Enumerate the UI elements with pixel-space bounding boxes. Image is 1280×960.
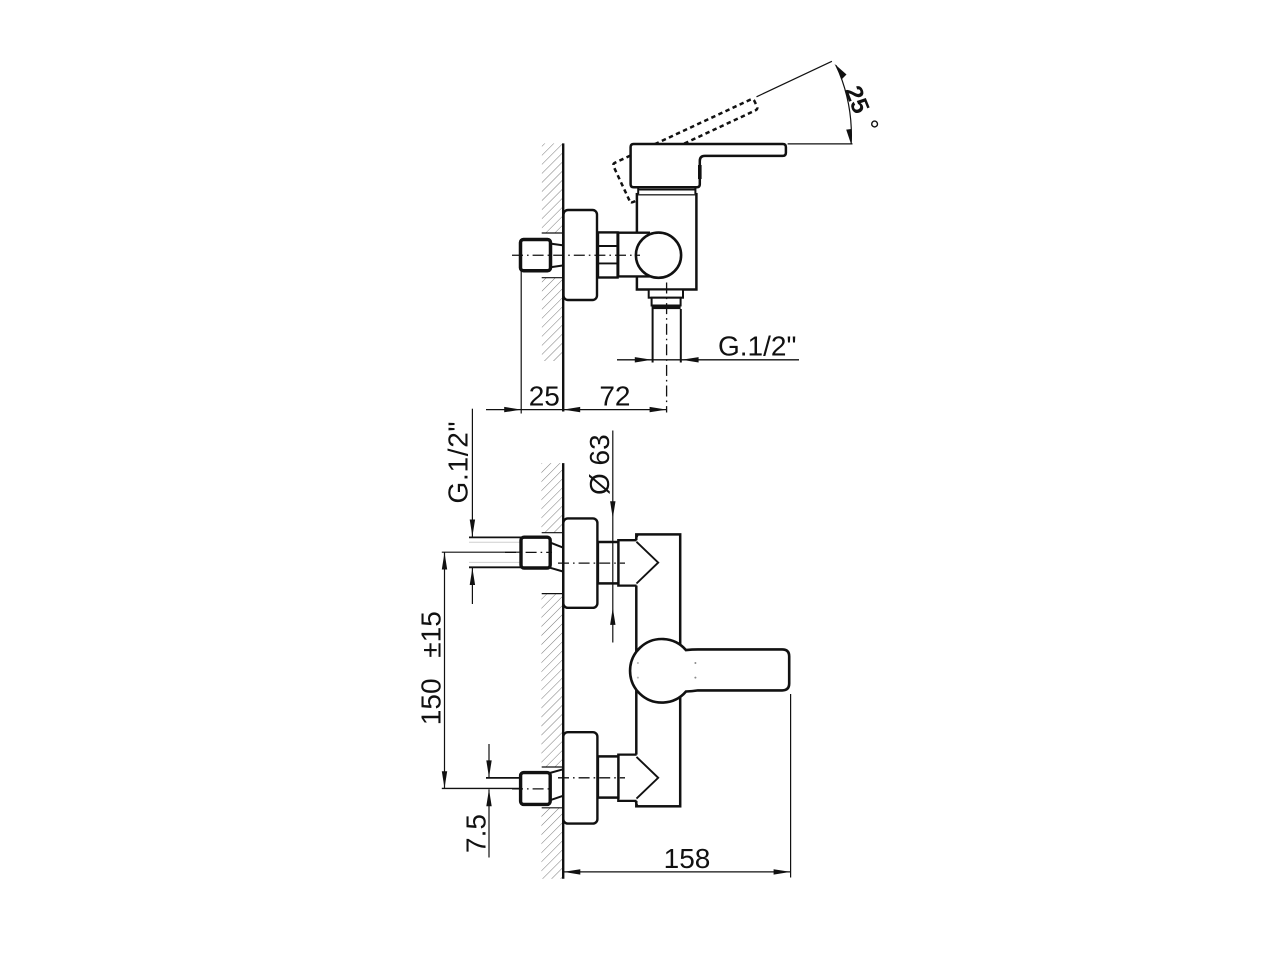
svg-text:158: 158: [664, 843, 711, 874]
solid handle (horizontal): [631, 144, 786, 187]
extension line upper center: [442, 551, 521, 553]
svg-text:150: 150: [416, 678, 447, 725]
svg-text:25: 25: [529, 380, 560, 411]
centerline upper valve: [558, 562, 625, 564]
dimension 7.5: [488, 744, 490, 777]
handle cap edge seam: [698, 165, 702, 179]
outlet step 2: [652, 298, 681, 306]
outlet thread relief band: [652, 305, 681, 309]
centerline upper inlet nut: [505, 551, 552, 553]
svg-text:7.5: 7.5: [461, 814, 492, 853]
arrow 25 left: [504, 407, 521, 412]
wall hole edge bottom: [542, 277, 563, 279]
mid nut between flange and valve: [598, 232, 618, 277]
ball joint circle: [636, 233, 681, 278]
hex coupling nut left of wall: [521, 240, 551, 271]
wall face line: [562, 463, 564, 879]
dashed raised handle (25 deg): [612, 98, 771, 203]
upper flange escutcheon: [563, 518, 597, 607]
arc arrow bottom: [846, 129, 851, 144]
dimension G.1/2 upper inlet: [471, 409, 473, 537]
wall hatching part 3: [541, 808, 562, 879]
lower flange escutcheon: [563, 732, 597, 823]
body vertical bar: [636, 534, 680, 806]
arrow G right: [682, 357, 699, 362]
wall face line: [562, 143, 564, 411]
wall hole edge top: [542, 232, 563, 234]
dimension line G.1/2 outlet: [617, 359, 799, 361]
dimension 150 line: [444, 552, 446, 788]
wall hatching part 1: [541, 463, 562, 533]
lower union nut right of flange: [598, 756, 619, 797]
upper valve chamfers: [635, 535, 638, 541]
outlet step 1: [649, 290, 683, 298]
flange escutcheon on wall: [564, 210, 598, 300]
dimension dia 63: [612, 431, 614, 643]
neck under handle: [638, 187, 695, 194]
arrow 72 left: [563, 407, 580, 412]
upper hex nut: [521, 537, 550, 568]
lower supply tube top: [486, 777, 521, 779]
upper valve box: [618, 540, 638, 585]
centerline lower valve: [558, 777, 625, 779]
wall hole edges lower: [542, 766, 563, 768]
upper check valve chevron: [637, 542, 659, 584]
svg-text:Ø 63: Ø 63: [584, 434, 615, 495]
horizontal reference line: [788, 143, 853, 145]
arrow G left: [635, 357, 652, 362]
valve block (between nut and body): [618, 233, 650, 277]
angle arc: [836, 65, 851, 143]
svg-text:±15: ±15: [416, 611, 447, 658]
outlet pipe G1/2: [652, 309, 654, 363]
upper supply tube: [469, 536, 522, 538]
arc arrow top: [835, 64, 847, 79]
wall hatching upper part: [542, 143, 562, 233]
upper eccentric taper: [550, 543, 563, 548]
arrow 72 right: [650, 407, 667, 412]
svg-text:G.1/2": G.1/2": [718, 330, 796, 361]
25 degree thin line: [757, 61, 832, 97]
lower hex nut: [521, 773, 551, 805]
lower valve chamfer: [635, 801, 638, 807]
taper shaft into wall: [551, 244, 563, 246]
svg-text:G.1/2": G.1/2": [443, 421, 474, 504]
wall hole edges upper: [542, 532, 563, 534]
wall hatching lower part: [542, 278, 562, 361]
upper union nut right of flange: [598, 542, 619, 583]
svg-text:72: 72: [599, 380, 630, 411]
degree circle: [872, 121, 878, 127]
wall hatching part 2: [541, 594, 562, 767]
extension line at nut face: [520, 272, 522, 414]
outlet vertical centerline: [666, 283, 668, 413]
dimension line 25 / 72: [486, 409, 667, 411]
lower valve box: [618, 755, 638, 801]
extension line lower center / tube bottom: [442, 787, 521, 789]
ball centre marks: [694, 662, 696, 664]
ball and lever handle: [630, 639, 789, 703]
centerline lower inlet nut: [512, 788, 552, 790]
horizontal axis centerline: [512, 254, 640, 256]
lower eccentric taper: [550, 769, 563, 773]
dimension 158: [563, 871, 790, 873]
body (side view): [637, 194, 697, 289]
lower check valve chevron: [637, 757, 659, 799]
